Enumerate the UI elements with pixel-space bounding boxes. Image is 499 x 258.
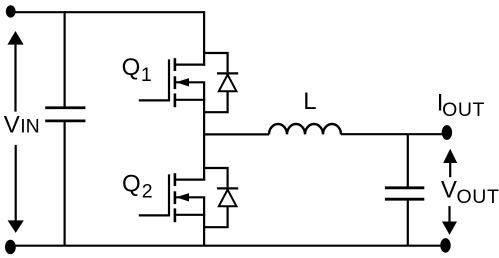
label VIN — [4, 111, 40, 138]
svg-text:1: 1 — [141, 64, 152, 86]
arrow: VIN polarity arrow down (points to bottom rail) — [8, 145, 24, 233]
label Q1 — [122, 54, 152, 86]
svg-text:OUT: OUT — [457, 186, 499, 208]
label IOUT — [437, 89, 485, 121]
label L — [303, 88, 316, 115]
drain line — [175, 179, 205, 181]
svg-text:L: L — [303, 88, 316, 115]
svg-text:Q: Q — [122, 170, 141, 197]
arrow: VOUT arrow up (toward output terminal) — [443, 149, 457, 177]
channel segment (body) — [174, 191, 177, 204]
wire: Q2 source to bottom rail — [203, 197, 205, 246]
wire: output capacitor to bottom rail — [407, 199, 409, 246]
node: output negative terminal — [440, 238, 450, 253]
body line with arrow — [176, 196, 205, 198]
svg-text:Q: Q — [122, 54, 141, 81]
gate bar — [168, 174, 170, 216]
capacitor COUT (output capacitor) — [385, 188, 424, 199]
wire: bottom rail (return path) — [9, 245, 446, 247]
wire: input capacitor to bottom rail — [63, 121, 65, 246]
wire: top rail from input terminal to Q1 drain — [9, 11, 204, 13]
svg-text:IN: IN — [20, 115, 40, 137]
wire: switch node to inductor — [204, 133, 269, 135]
gate bar — [168, 59, 170, 101]
svg-text:V: V — [4, 111, 20, 138]
channel segment (source) — [174, 208, 177, 222]
channel segment (source) — [174, 93, 177, 107]
transistor Q2 (low-side N-MOSFET) — [139, 173, 205, 222]
wire: switch node vertical (Q1 source to Q2 drain) — [203, 82, 205, 179]
gate lead — [139, 99, 170, 101]
svg-text:OUT: OUT — [442, 99, 485, 121]
wire: Q1 drain vertical drop from top rail — [203, 11, 205, 66]
source line — [175, 99, 205, 101]
diode D2 (Q2 body diode) — [203, 168, 238, 227]
channel segment (body) — [174, 76, 177, 89]
body line with arrow — [176, 81, 205, 83]
transistor Q1 (high-side N-MOSFET) — [139, 58, 205, 107]
label Q2 — [122, 170, 153, 202]
node: input positive terminal (top-left) — [6, 5, 16, 17]
drain line — [175, 63, 205, 65]
svg-text:2: 2 — [142, 180, 153, 202]
wire: inductor to output terminal — [341, 133, 443, 135]
wire: input capacitor branch from top rail — [63, 11, 65, 108]
gate lead — [139, 214, 170, 216]
arrow: VOUT arrow down (toward output return terminal) — [442, 206, 457, 235]
wire: output capacitor branch from output wire — [407, 134, 409, 188]
label VOUT — [441, 177, 499, 209]
capacitor CIN (input capacitor) — [45, 108, 85, 121]
inductor L — [269, 124, 341, 134]
diode D1 (Q1 body diode) — [203, 53, 238, 112]
node: input negative terminal (bottom-left) — [5, 240, 16, 254]
channel segment (drain) — [174, 173, 177, 186]
arrow: VIN polarity arrow up (points to top rail) — [7, 31, 23, 112]
channel segment (drain) — [174, 58, 177, 71]
node: output positive terminal — [442, 125, 452, 140]
svg-text:V: V — [441, 177, 457, 204]
source line — [175, 214, 205, 216]
